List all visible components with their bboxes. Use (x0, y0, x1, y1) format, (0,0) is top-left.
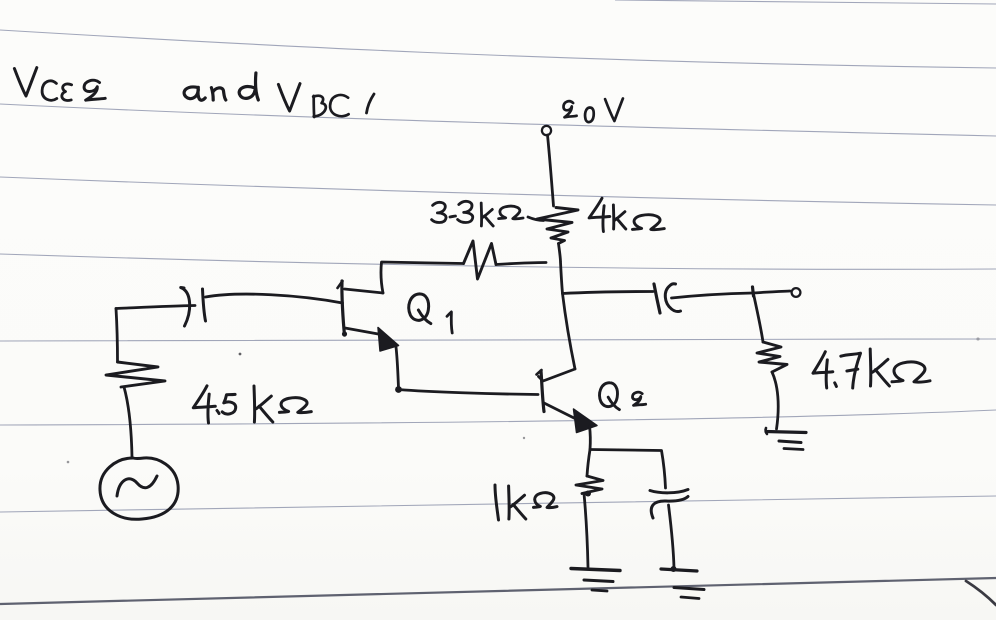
wire: capacitor Cin to Q1 base (206, 294, 343, 303)
wire: junction to output terminal (754, 291, 791, 293)
ruled line 8 (dark bottom) (0, 578, 996, 604)
resistor 4.5k ohm (zigzag) (106, 362, 165, 387)
label 4k ohm (589, 198, 664, 231)
ink speck (67, 461, 70, 464)
wire: emitter node down to resistor 1k (587, 450, 590, 477)
resistor 4k ohm (537, 208, 578, 244)
capacitor Cout right plate (665, 284, 680, 312)
ink speck (976, 337, 979, 340)
label 3.3k ohm (432, 201, 544, 226)
AC source tilde (117, 476, 157, 496)
junction dot Q1 emitter node (395, 386, 402, 393)
title n (211, 88, 225, 100)
ruled line 2 (0, 104, 996, 136)
transistor Q1 collector wire (345, 289, 384, 293)
wire: resistor 4.5k to source (124, 387, 132, 457)
ruled line 6 (0, 410, 996, 425)
AC source circle (100, 458, 178, 519)
title d (239, 73, 258, 100)
wire: output junction down to resistor 4.7k (754, 294, 764, 342)
supply terminal (open circle) (542, 126, 551, 135)
junction output node (753, 287, 754, 296)
wire: resistor 1k to ground (584, 494, 588, 568)
ground (1k) (571, 569, 620, 592)
output terminal (open circle) (792, 288, 801, 297)
capacitor Cin right plate (203, 289, 206, 321)
wire: Q1 emitter to Q2 base (399, 390, 539, 395)
title comma 1 (367, 94, 375, 113)
title E subscript (62, 84, 72, 101)
title a (184, 87, 205, 100)
junction dot below 1k (585, 491, 591, 497)
wire: Q1 emitter down (396, 347, 399, 388)
title BC subscript (313, 95, 348, 117)
wire: collector step to resistor 3.3k (381, 262, 464, 293)
label 4.5k ohm (193, 386, 311, 423)
label Q2 (600, 383, 646, 410)
label 4.7 k ohm (813, 349, 930, 388)
label 1k ohm (495, 485, 557, 520)
wire: Q2 emitter down to emitter node (588, 426, 592, 450)
ink speck (239, 353, 242, 356)
ruled line 5 (0, 339, 996, 341)
resistor 3.3k ohm (zigzag) (464, 241, 497, 279)
transistor Q1 emitter (345, 328, 381, 335)
wire: bypass capacitor to ground (669, 505, 675, 568)
ruled line 0 (top right partial) (615, 0, 996, 4)
title C subscript (42, 81, 57, 100)
ruled line 3 (0, 177, 996, 205)
resistor 1k ohm (zigzag) (576, 476, 603, 494)
page corner swoosh (966, 581, 996, 605)
wire: R 4k down to collector node (559, 244, 576, 370)
transistor Q2 base bar (537, 370, 545, 412)
wire: supply terminal to R 4k (548, 135, 554, 206)
transistor Q2 emitter arrowhead (574, 409, 598, 433)
wire: input corner down to resistor 4.5k (116, 309, 118, 363)
label Q1 (409, 294, 452, 333)
title 2 (84, 80, 105, 100)
transistor Q2 collector wire (539, 369, 576, 381)
capacitor Cin left plate (181, 287, 190, 326)
wire: resistor 4.7k to ground (772, 372, 778, 429)
capacitor Cout left plate (654, 284, 660, 313)
junction dot bypass ground (671, 566, 677, 572)
wire: resistor 3.3k to collector node (496, 263, 546, 265)
capacitor bypass bottom plate (651, 497, 688, 519)
capacitor bypass top plate (650, 490, 688, 493)
wire: emitter node to bypass branch (590, 450, 666, 489)
wire: capacitor Cout to output junction (672, 293, 753, 298)
ink speck (523, 437, 525, 439)
transistor Q1 base bar (338, 281, 348, 337)
ground (bypass) (661, 569, 704, 599)
ground (4.7k) (766, 428, 806, 450)
title V2 (278, 84, 300, 111)
ruled line 7 (0, 496, 996, 512)
transistor Q1 emitter arrowhead (378, 328, 399, 352)
node 20V label (563, 99, 622, 123)
transistor Q2 emitter (544, 403, 577, 420)
resistor 4.7k ohm (zigzag) (757, 342, 787, 372)
wire: collector node to capacitor Cout (563, 292, 654, 294)
ruled line 1 (0, 30, 996, 68)
ruled line 4 (0, 254, 996, 269)
title V (14, 68, 36, 96)
wire: input corner to capacitor Cin (116, 306, 195, 309)
